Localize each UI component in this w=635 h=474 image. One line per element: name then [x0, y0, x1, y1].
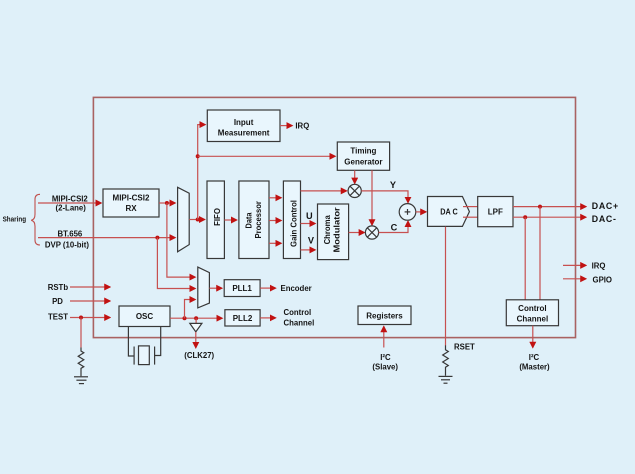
- multiplier Y: [348, 184, 361, 197]
- resistor RSET: [443, 345, 449, 375]
- wire MIPI drop to PLL mux: [167, 203, 195, 277]
- svg-text:U: U: [306, 211, 313, 221]
- junction TEST: [79, 316, 83, 320]
- svg-text:FIFO: FIFO: [213, 208, 222, 226]
- wire mult1 to adder: [361, 191, 408, 203]
- svg-text:I²C: I²C: [529, 353, 540, 362]
- wire TG to mult1: [354, 170, 356, 183]
- wire TG to mult2: [371, 170, 373, 225]
- svg-text:Gain Control: Gain Control: [290, 200, 299, 247]
- wire Y from Gain Control to mult1: [301, 190, 347, 192]
- crystal X1: [128, 327, 160, 365]
- svg-text:IRQ: IRQ: [295, 121, 309, 130]
- chip boundary: [93, 97, 575, 337]
- block FIFO: [207, 181, 224, 259]
- svg-text:LPF: LPF: [488, 208, 503, 217]
- wire PLL2 to Control Channel: [260, 317, 275, 319]
- wire adder to DAC: [416, 211, 426, 213]
- block Timing Generator: [337, 142, 389, 170]
- junction RX out: [165, 201, 169, 205]
- wire DP to GC 3: [269, 242, 281, 244]
- wire DAC to RSET: [445, 227, 447, 346]
- block PLL1: [224, 280, 260, 297]
- junction DAC-: [523, 215, 527, 219]
- svg-text:V: V: [308, 235, 315, 245]
- svg-text:MIPI-CSI2: MIPI-CSI2: [113, 194, 150, 203]
- svg-text:RX: RX: [125, 204, 137, 213]
- svg-text:I²C: I²C: [380, 353, 391, 362]
- svg-text:(2-Lane): (2-Lane): [56, 203, 87, 212]
- svg-text:Channel: Channel: [517, 314, 549, 323]
- wire U: [301, 223, 316, 225]
- block Control Channel: [506, 300, 558, 326]
- svg-text:BT.656: BT.656: [58, 230, 83, 239]
- block Data Processor: [239, 181, 269, 259]
- wire drop to Control Channel B: [524, 217, 526, 300]
- wire drop to Control Channel A: [539, 207, 541, 300]
- wire V: [301, 249, 316, 251]
- wire TEST input: [70, 317, 110, 319]
- svg-text:(Slave): (Slave): [372, 362, 398, 371]
- svg-text:DAC+: DAC+: [592, 201, 619, 211]
- wire PD input: [70, 300, 110, 302]
- wire DAC to LPF lower: [463, 216, 478, 218]
- wire DAC- output: [513, 216, 586, 218]
- wire RX output: [159, 202, 175, 204]
- svg-text:(Master): (Master): [519, 362, 550, 371]
- wire FIFO to Data Processor: [224, 219, 236, 221]
- svg-text:Modulator: Modulator: [332, 207, 341, 252]
- svg-text:Generator: Generator: [344, 157, 382, 166]
- resistor TEST: [78, 348, 84, 377]
- wire tap to Input Measurement: [198, 125, 205, 220]
- junction OSC out B: [194, 316, 198, 320]
- junction OSC out A: [183, 316, 187, 320]
- wire CLK27 out: [195, 332, 197, 348]
- wire MIPI-CSI2 input: [38, 202, 101, 204]
- brace sharing: [31, 194, 40, 245]
- junction DAC+: [538, 205, 542, 209]
- wire BT drop to PLL mux: [157, 238, 195, 289]
- junction mux out: [196, 218, 200, 222]
- svg-text:Chroma: Chroma: [323, 215, 332, 245]
- svg-text:Data: Data: [245, 212, 254, 228]
- wire mult2 to adder: [379, 221, 408, 232]
- wire DP to GC 2: [269, 220, 281, 222]
- block Gain Control: [283, 181, 300, 259]
- adder: [399, 204, 416, 221]
- svg-text:Control: Control: [518, 304, 546, 313]
- svg-text:PD: PD: [52, 297, 63, 306]
- svg-text:Registers: Registers: [366, 311, 403, 320]
- wire OSC branch to PLL mux: [185, 300, 196, 319]
- wire OSC out to PLL2: [170, 317, 222, 319]
- ground RSET: [439, 376, 453, 383]
- wire RSTb input: [70, 286, 110, 288]
- wire to clk buffer: [195, 318, 197, 323]
- buffer clk: [190, 323, 202, 331]
- svg-text:Processor: Processor: [254, 201, 263, 238]
- block OSC: [119, 306, 170, 327]
- svg-text:Sharing: Sharing: [3, 215, 27, 224]
- svg-text:(CLK27): (CLK27): [184, 351, 214, 360]
- wire TEST drop: [80, 318, 82, 348]
- svg-text:DAC-: DAC-: [592, 214, 617, 224]
- block LPF: [478, 197, 513, 227]
- svg-text:RSTb: RSTb: [48, 283, 69, 292]
- svg-text:MIPI-CSI2: MIPI-CSI2: [52, 194, 89, 203]
- wire CC to I2C master: [532, 326, 534, 348]
- block Registers: [358, 306, 411, 325]
- svg-text:Channel: Channel: [284, 319, 315, 328]
- svg-text:IRQ: IRQ: [592, 261, 606, 270]
- mux input select: [178, 187, 190, 252]
- block Chroma Modulator: [318, 204, 349, 260]
- wire DP to GC 1: [269, 197, 281, 199]
- svg-text:Control: Control: [284, 308, 312, 317]
- junction timing tap: [196, 154, 200, 158]
- svg-text:Input: Input: [234, 118, 254, 127]
- wire Chroma to mult2: [349, 232, 365, 234]
- svg-text:Y: Y: [390, 180, 396, 190]
- block Input Measurement: [207, 110, 280, 142]
- wire mux2 to PLL1: [209, 287, 221, 289]
- svg-text:Measurement: Measurement: [218, 129, 270, 138]
- ground TEST: [74, 377, 88, 384]
- wire IM IRQ out: [280, 125, 292, 127]
- wire DAC to LPF upper: [463, 206, 478, 208]
- wire BT.656 / DVP input: [38, 237, 175, 239]
- wire PLL1 to Encoder: [260, 287, 275, 289]
- svg-text:PLL2: PLL2: [233, 314, 253, 323]
- svg-text:Encoder: Encoder: [281, 284, 312, 293]
- svg-text:OSC: OSC: [136, 312, 154, 321]
- svg-text:DVP (10-bit): DVP (10-bit): [45, 241, 89, 250]
- multiplier C: [365, 226, 378, 239]
- svg-text:GPIO: GPIO: [593, 276, 613, 285]
- wire DAC+ output: [513, 206, 586, 208]
- wire IRQ output: [563, 264, 586, 266]
- svg-text:DA C: DA C: [440, 208, 458, 217]
- svg-text:Timing: Timing: [350, 147, 376, 156]
- wire I2C slave to Registers: [383, 327, 385, 348]
- block PLL2: [225, 310, 260, 326]
- wire mux out to FIFO: [189, 219, 204, 221]
- junction BT drop: [155, 236, 159, 240]
- svg-text:PLL1: PLL1: [232, 284, 252, 293]
- wire GPIO output: [563, 278, 586, 280]
- block MIPI-CSI2 RX: [103, 189, 159, 217]
- svg-text:C: C: [391, 223, 398, 233]
- block DAC: [428, 197, 470, 227]
- wire to Timing Generator: [198, 155, 335, 157]
- svg-text:RSET: RSET: [454, 343, 475, 352]
- svg-text:TEST: TEST: [48, 313, 68, 322]
- mux PLL select: [198, 267, 210, 308]
